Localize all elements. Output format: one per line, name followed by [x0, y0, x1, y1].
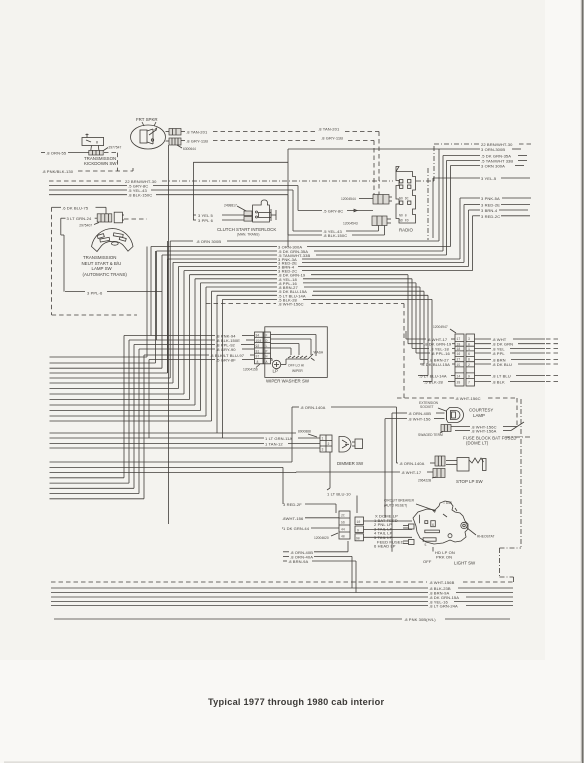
svg-text:.5 GRY-8C: .5 GRY-8C	[323, 209, 343, 214]
part number 12004947	[433, 325, 456, 333]
svg-text:CLUTCH START INTERLOCK: CLUTCH START INTERLOCK	[217, 227, 276, 232]
wire .8 ORN-40B courtesy	[392, 411, 445, 552]
svg-text:OFF LO HI: OFF LO HI	[288, 364, 304, 368]
svg-text:SWAGED TERM: SWAGED TERM	[418, 433, 443, 437]
wire .8 PNK-94 wiper feed	[124, 334, 254, 478]
wiper washer switch box	[265, 327, 328, 378]
svg-text:.8 WHT-156C: .8 WHT-156C	[455, 396, 481, 401]
clutch start interlock switch	[253, 200, 276, 222]
wire 3 RED-2E right	[464, 203, 530, 263]
transmission neut start and b/u lamp switch body	[92, 229, 134, 252]
svg-text:12004544: 12004544	[341, 197, 356, 201]
svg-text:8: 8	[257, 360, 259, 364]
svg-text:1 TAN-12: 1 TAN-12	[265, 442, 283, 447]
wire .8 YEL-16 bus	[51, 600, 513, 605]
svg-text:12004543: 12004543	[343, 222, 358, 226]
svg-text:RADIO: RADIO	[399, 228, 413, 233]
svg-text:WIPER: WIPER	[292, 369, 303, 373]
svg-text:3 PPL-6: 3 PPL-6	[87, 291, 103, 296]
svg-text:1 LT GRN-11A: 1 LT GRN-11A	[265, 436, 292, 441]
svg-text:LP: LP	[273, 369, 278, 374]
svg-text:3 LT GRN-24: 3 LT GRN-24	[67, 216, 92, 221]
wire 22 BRN/WHT-30	[49, 144, 480, 184]
svg-text:.5 BLK-28: .5 BLK-28	[424, 380, 444, 385]
wire .5 BLK-28 connector row	[423, 380, 560, 385]
wire 3 RED-2C stack	[184, 269, 473, 394]
label RHEOSTAT	[467, 528, 495, 539]
svg-text:WASH: WASH	[314, 351, 324, 355]
wire .8 YEL-18 connector row	[412, 346, 560, 351]
svg-text:44: 44	[341, 528, 345, 532]
wire 3 BRN-4 stack	[179, 265, 469, 389]
wire .5 GRY-8F wiper feed	[149, 358, 254, 439]
wire .8 BRN-9A light switch	[283, 559, 356, 593]
svg-text:NO 0: NO 0	[399, 214, 407, 218]
wire .8 WHT-156C stack dashed	[206, 302, 517, 427]
svg-text:6: 6	[468, 352, 470, 356]
wire .8 BRN-27 stack	[206, 285, 420, 416]
wire .8 BLK-150E wiper feed	[129, 338, 254, 483]
wire .8 DK GRN-19 stack	[190, 273, 409, 400]
dimmer switch body	[339, 437, 363, 453]
wire .8 ORN-40B light switch	[283, 541, 348, 555]
svg-text:56: 56	[341, 521, 345, 525]
wire .8 TAN-201 dashed	[181, 127, 379, 197]
svg-text:.8 LT GRN-24A: .8 LT GRN-24A	[429, 604, 458, 609]
svg-text:DIMMER SW: DIMMER SW	[337, 461, 364, 466]
svg-text:8900888: 8900888	[298, 430, 311, 434]
svg-text:SOCKET: SOCKET	[420, 405, 434, 409]
svg-text:LIGHT SW: LIGHT SW	[454, 561, 476, 566]
label 22 BRN/WHT-30 right	[481, 142, 531, 147]
wire 3 ORN-300B right	[288, 147, 521, 241]
wire 3 RED-2E stack	[173, 260, 464, 383]
wire speaker ground vertical	[168, 145, 170, 524]
wiper lamp LP	[272, 359, 286, 374]
stop lamp switch body	[446, 458, 486, 472]
wire .8 WHT-17 connector row	[406, 331, 560, 342]
svg-text:3 RED-2C: 3 RED-2C	[481, 214, 500, 219]
wire dashed stub right of connector	[124, 218, 147, 220]
wire 3 YEL 5 to clutch interlock	[193, 213, 244, 218]
wire .8 WHT-156 courtesy	[385, 417, 445, 518]
wire .8 BLK-23B bus	[51, 586, 513, 591]
svg-text:1: 1	[322, 437, 324, 441]
svg-text:KICKDOWN SW: KICKDOWN SW	[84, 161, 117, 166]
label FUSE BLOCK BAT FUSED	[463, 399, 531, 548]
wire .8 PNK-30B bus	[54, 617, 510, 622]
svg-text:STOP LP SW: STOP LP SW	[456, 479, 483, 484]
svg-text:94: 94	[256, 334, 260, 338]
wire .5 LT BLU-14A stack	[217, 293, 428, 433]
svg-text:28: 28	[457, 381, 461, 385]
svg-text:18: 18	[457, 347, 461, 351]
svg-text:WIPER WASHER SW: WIPER WASHER SW	[266, 379, 310, 384]
radio outline	[396, 167, 416, 224]
svg-text:3 ORN-300B: 3 ORN-300B	[481, 147, 505, 152]
svg-text:.8WHT-156: .8WHT-156	[282, 516, 304, 521]
wire .8 BRN-27 connector row	[420, 357, 560, 362]
svg-text:2C: 2C	[341, 514, 345, 518]
wire 3 PPL 6 to clutch interlock	[193, 218, 244, 223]
wire 3 ORN 300A right	[451, 164, 525, 247]
wire 3 YEL-5 right	[433, 176, 530, 238]
wiper switch contacts	[286, 351, 324, 361]
scan bottom edge	[4, 762, 582, 763]
wire .8 ORN-140A stop lamp feed	[292, 405, 435, 466]
wire .6 DK BLU-75 dashed branch	[52, 205, 106, 214]
svg-text:40: 40	[341, 535, 345, 539]
wire .8 BLK/LT BLU-97 wiper feed	[144, 353, 254, 499]
svg-text:150: 150	[256, 339, 262, 343]
wire .8 WHT-156C lamp	[451, 425, 517, 430]
part number 12004156	[243, 364, 260, 372]
svg-text:3 ORN 300A: 3 ORN 300A	[481, 164, 505, 169]
svg-text:3: 3	[468, 337, 470, 341]
svg-text:.8 BLK-150C: .8 BLK-150C	[128, 193, 152, 198]
wire 3 PNK-5A right	[460, 196, 531, 259]
svg-text:A: A	[266, 360, 268, 364]
part number 12004620	[314, 533, 338, 540]
radio connector 12004543	[343, 216, 391, 226]
stop lamp switch connectors	[433, 456, 445, 478]
svg-text:.8 GRY-11B: .8 GRY-11B	[321, 136, 343, 141]
wire bundle left exit y357-373	[50, 247, 168, 374]
svg-text:1: 1	[468, 347, 470, 351]
svg-text:8: 8	[468, 358, 470, 362]
svg-text:LAMP SW: LAMP SW	[92, 266, 113, 271]
wire .8 GRY-11B dashed	[181, 136, 374, 197]
svg-text:91: 91	[256, 349, 260, 353]
wire dashed bracket around kickdown label	[104, 153, 118, 171]
svg-text:2975407: 2975407	[79, 224, 92, 228]
svg-text:.8 GRY-90: .8 GRY-90	[216, 347, 236, 352]
svg-text:.8 DK BLU: .8 DK BLU	[492, 362, 512, 367]
svg-text:.6 DK BLU-75: .6 DK BLU-75	[62, 205, 89, 210]
label COURTESY LAMP	[469, 408, 493, 419]
wire 3 BRN-4 right	[469, 208, 529, 267]
transmission kickdown switch	[82, 134, 104, 156]
svg-text:3 RED-2E: 3 RED-2E	[481, 203, 500, 208]
label CIRCUIT BREAKER	[384, 499, 436, 513]
svg-text:.8 WHT-156A: .8 WHT-156A	[471, 429, 497, 434]
radio connector 12004544	[341, 195, 392, 205]
svg-text:27: 27	[457, 358, 461, 362]
part number 2975407	[79, 223, 99, 228]
label OFF LO HI WIPER	[288, 364, 304, 374]
svg-text:P: P	[266, 349, 268, 353]
wire left exit y465 to light switch	[50, 467, 284, 504]
svg-text:10: 10	[357, 520, 361, 524]
clutch start interlock connector	[244, 211, 252, 221]
svg-text:F: F	[266, 334, 268, 338]
svg-text:296422B: 296422B	[418, 479, 432, 483]
wire .5 LT BLU-14A connector row	[418, 374, 560, 379]
svg-text:3 YEL-5: 3 YEL-5	[481, 176, 497, 181]
part number 2498817 clutch	[224, 204, 247, 212]
svg-text:17: 17	[457, 337, 461, 341]
svg-text:LAMP: LAMP	[473, 413, 485, 418]
svg-text:3 PPL 6: 3 PPL 6	[198, 218, 214, 223]
wire left dashed vertical	[51, 207, 53, 315]
svg-text:ND FD: ND FD	[399, 219, 409, 223]
wire 3 RED-2F light switch	[283, 502, 336, 513]
wire .5 DK GRN-35A right	[443, 154, 527, 252]
svg-text:2977547: 2977547	[109, 145, 122, 149]
wire left exit y462 to stop lamp	[50, 407, 293, 462]
wire .8 DK GRN-15A bus	[51, 595, 513, 600]
svg-text:(AUTOMATIC TRANS): (AUTOMATIC TRANS)	[83, 272, 128, 277]
svg-text:.8 BLK: .8 BLK	[492, 380, 505, 385]
front speaker FRT SPKR	[131, 117, 166, 149]
wire .5 BLK-28 stack	[223, 297, 433, 438]
part number 296422B	[418, 477, 436, 483]
wire 3 ORN-300A stack	[151, 245, 451, 336]
svg-text:.8 ORN-140A: .8 ORN-140A	[300, 405, 326, 410]
label TRANSMISSION NEUT START & B/U LAMP SW	[82, 255, 128, 277]
svg-text:2498817: 2498817	[224, 204, 237, 208]
scan page right edge	[582, 0, 584, 763]
svg-text:9: 9	[357, 529, 359, 533]
wire 1 TAN-12 dimmer feed	[50, 442, 321, 447]
part number 2977547	[104, 145, 122, 150]
svg-text:.8 ORN 300B: .8 ORN 300B	[196, 239, 221, 244]
dimmer switch connector	[320, 435, 332, 452]
svg-text:6 HEAD LP: 6 HEAD LP	[374, 544, 396, 549]
svg-text:7: 7	[468, 381, 470, 385]
svg-text:H: H	[266, 355, 268, 359]
wire .8 PPL-16 stack	[201, 281, 417, 411]
svg-text:L: L	[266, 344, 268, 348]
label CLUTCH START INTERLOCK	[217, 227, 276, 237]
svg-text:3 BRN-4: 3 BRN-4	[481, 208, 498, 213]
svg-text:90: 90	[356, 537, 360, 541]
svg-text:(MAN. TRANS): (MAN. TRANS)	[237, 233, 259, 237]
wire .8 BLK-150C	[49, 193, 385, 238]
svg-text:(AUTO RESET): (AUTO RESET)	[384, 504, 407, 508]
label HD LP ON / PRK ON / OFF / LIGHT SW	[423, 547, 476, 566]
svg-text:D: D	[266, 339, 268, 343]
svg-text:12004156: 12004156	[243, 368, 258, 372]
wire .8 ORN-40A light switch	[283, 554, 352, 588]
wire 3 PNK-3A stack	[168, 257, 461, 373]
radio dash-dot boundary	[427, 168, 429, 240]
courtesy lamp	[447, 408, 464, 423]
svg-text:.8 ORN-40B: .8 ORN-40B	[408, 411, 431, 416]
svg-text:2: 2	[468, 363, 470, 367]
svg-text:PRK ON: PRK ON	[436, 554, 452, 559]
wire left dashed horizontal	[52, 314, 137, 316]
wire 1 LT GRN-11A dimmer feed	[50, 436, 321, 441]
wire .8 GRY-90 wiper feed	[139, 347, 254, 494]
wire .5 DK BLU-15A stack	[212, 289, 425, 421]
wire .8 ORN 300B	[168, 239, 440, 373]
wire 1 DK GRN-44 light switch	[282, 526, 339, 531]
svg-text:12004947: 12004947	[433, 325, 448, 329]
svg-text:14: 14	[457, 375, 461, 379]
wire .8 WHT-17 stop lamp	[296, 470, 433, 475]
wire .8 WHT-156B bus dashed	[51, 580, 514, 585]
connector 12004947	[455, 334, 475, 386]
part number 6300644	[177, 145, 196, 151]
svg-text:3 RED-2F: 3 RED-2F	[283, 502, 302, 507]
svg-text:2: 2	[328, 442, 330, 446]
svg-text:CIRCUIT BREAKER: CIRCUIT BREAKER	[384, 499, 415, 503]
svg-text:COURTESY: COURTESY	[469, 408, 493, 413]
svg-text:.8 PNK/BLK-130: .8 PNK/BLK-130	[42, 169, 74, 174]
svg-text:16: 16	[457, 352, 461, 356]
svg-text:92: 92	[256, 344, 260, 348]
wire .5 DK BLU-15A connector row	[420, 362, 560, 367]
svg-text:.8 PPL-16: .8 PPL-16	[431, 351, 451, 356]
wire .8 BRN-9A bus	[51, 591, 513, 596]
svg-text:.8 TAN-201: .8 TAN-201	[186, 130, 208, 135]
wire .8 WHT-156A lamp	[455, 422, 524, 434]
svg-text:.5 LT BLU-14A: .5 LT BLU-14A	[419, 374, 447, 379]
svg-text:.8 GRY-11B: .8 GRY-11B	[186, 139, 208, 144]
connector neut start sw	[97, 212, 124, 223]
svg-text:.8 WHT-17: .8 WHT-17	[401, 470, 422, 475]
svg-text:.8 BRN-9A: .8 BRN-9A	[288, 559, 308, 564]
wire .8 ORN-55	[41, 151, 89, 156]
svg-text:.8 PPL: .8 PPL	[492, 351, 505, 356]
wire 3 LT GRN-24	[61, 216, 97, 291]
svg-text:.8 WHT-156C: .8 WHT-156C	[278, 302, 304, 307]
svg-text:3: 3	[322, 448, 324, 452]
svg-text:.8 WHT-156: .8 WHT-156	[408, 417, 431, 422]
wire .5 TAN/WHT 33B right	[447, 159, 528, 256]
svg-text:12004620: 12004620	[314, 536, 329, 540]
wire 1 LT BLU-10	[327, 452, 357, 513]
wire .8 YEL-18 stack	[195, 277, 412, 405]
wire .8 DK GRN-19 connector row	[408, 342, 560, 347]
wire .5 TAN/WHT-33B stack	[162, 253, 447, 368]
svg-text:FRT SPKR: FRT SPKR	[136, 117, 158, 122]
svg-text:(DOME LT): (DOME LT)	[466, 441, 489, 446]
svg-text:.5 DK BLU-15A: .5 DK BLU-15A	[421, 362, 450, 367]
wire 3 RED-2C right	[473, 214, 531, 271]
wire 3 PPL-6	[65, 291, 162, 296]
svg-text:RHEOSTAT: RHEOSTAT	[477, 535, 494, 539]
wire bundle left exit y378-421	[50, 241, 212, 421]
wire bundle left exit y478-498	[50, 448, 321, 499]
wiper washer switch connector 12004156	[255, 332, 271, 364]
wire .8 WHT-156 light switch	[282, 516, 339, 521]
svg-text:5: 5	[425, 543, 427, 547]
svg-text:97: 97	[256, 355, 260, 359]
svg-text:9: 9	[468, 375, 470, 379]
svg-text:.8 LT BLU: .8 LT BLU	[492, 374, 511, 379]
svg-text:.8 WHT-156B: .8 WHT-156B	[429, 580, 455, 585]
wire .8 PPL-16 connector row	[416, 351, 560, 356]
svg-text:6: 6	[432, 523, 434, 527]
svg-text:19: 19	[457, 343, 461, 347]
wire 8900888 pointer line	[50, 430, 318, 438]
wire .8 LT GRN-24A bus	[51, 604, 513, 609]
svg-text:0: 0	[468, 343, 470, 347]
wire vertical feed to ORN-300A	[193, 149, 288, 247]
svg-text:.8 ORN-140A: .8 ORN-140A	[399, 461, 425, 466]
svg-text:1 LT BLU-10: 1 LT BLU-10	[327, 492, 351, 497]
wire .5 GRY-8C	[49, 184, 373, 214]
svg-text:15: 15	[457, 363, 461, 367]
courtesy lamp extension socket	[419, 401, 446, 411]
svg-text:.8 BLK-150C: .8 BLK-150C	[323, 233, 347, 238]
wire .8 PPL-92 wiper feed	[134, 343, 254, 489]
wire dash-dot light switch to bus	[500, 548, 522, 582]
svg-text:NO DC: NO DC	[399, 197, 409, 201]
swaged terminal	[418, 425, 451, 438]
light switch connector	[339, 511, 412, 541]
svg-text:1 DK GRN-44: 1 DK GRN-44	[283, 526, 310, 531]
svg-text:TRANSMISSION: TRANSMISSION	[83, 255, 116, 260]
svg-text:.8 ORN-55: .8 ORN-55	[46, 151, 67, 156]
svg-text:OFF: OFF	[423, 559, 432, 564]
speaker connectors	[166, 129, 182, 146]
svg-text:.5 GRY-8F: .5 GRY-8F	[216, 358, 236, 363]
svg-text:3 PNK-5A: 3 PNK-5A	[481, 196, 500, 201]
label light switch pin list	[374, 514, 404, 549]
wire .5 DK GRN-35A stack	[157, 249, 444, 340]
wire left exit y468	[50, 471, 297, 474]
svg-text:.8 PNK 30B(H/L): .8 PNK 30B(H/L)	[404, 617, 436, 622]
svg-text:.8 TAN-201: .8 TAN-201	[318, 127, 340, 132]
wire .8 PNK/BLK-130	[42, 168, 133, 174]
light switch body	[403, 501, 468, 547]
wire .5 YEL-43	[49, 188, 379, 234]
wire .8 WHT-156C dashed bottom	[397, 396, 517, 401]
svg-text:Typical 1977 through 1980 cab: Typical 1977 through 1980 cab interior	[208, 697, 384, 707]
svg-text:6300644: 6300644	[183, 147, 196, 151]
